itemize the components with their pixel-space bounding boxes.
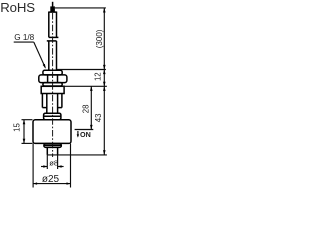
svg-text:12: 12 bbox=[94, 72, 103, 81]
svg-text:ON: ON bbox=[80, 130, 91, 139]
svg-text:RoHS: RoHS bbox=[0, 0, 35, 15]
svg-text:15: 15 bbox=[13, 123, 22, 132]
svg-text:ø8: ø8 bbox=[49, 159, 58, 168]
svg-text:(300): (300) bbox=[95, 29, 104, 48]
svg-text:G 1/8: G 1/8 bbox=[14, 33, 34, 42]
svg-text:ø25: ø25 bbox=[42, 174, 60, 185]
svg-text:43: 43 bbox=[94, 114, 103, 123]
svg-text:28: 28 bbox=[81, 105, 90, 114]
